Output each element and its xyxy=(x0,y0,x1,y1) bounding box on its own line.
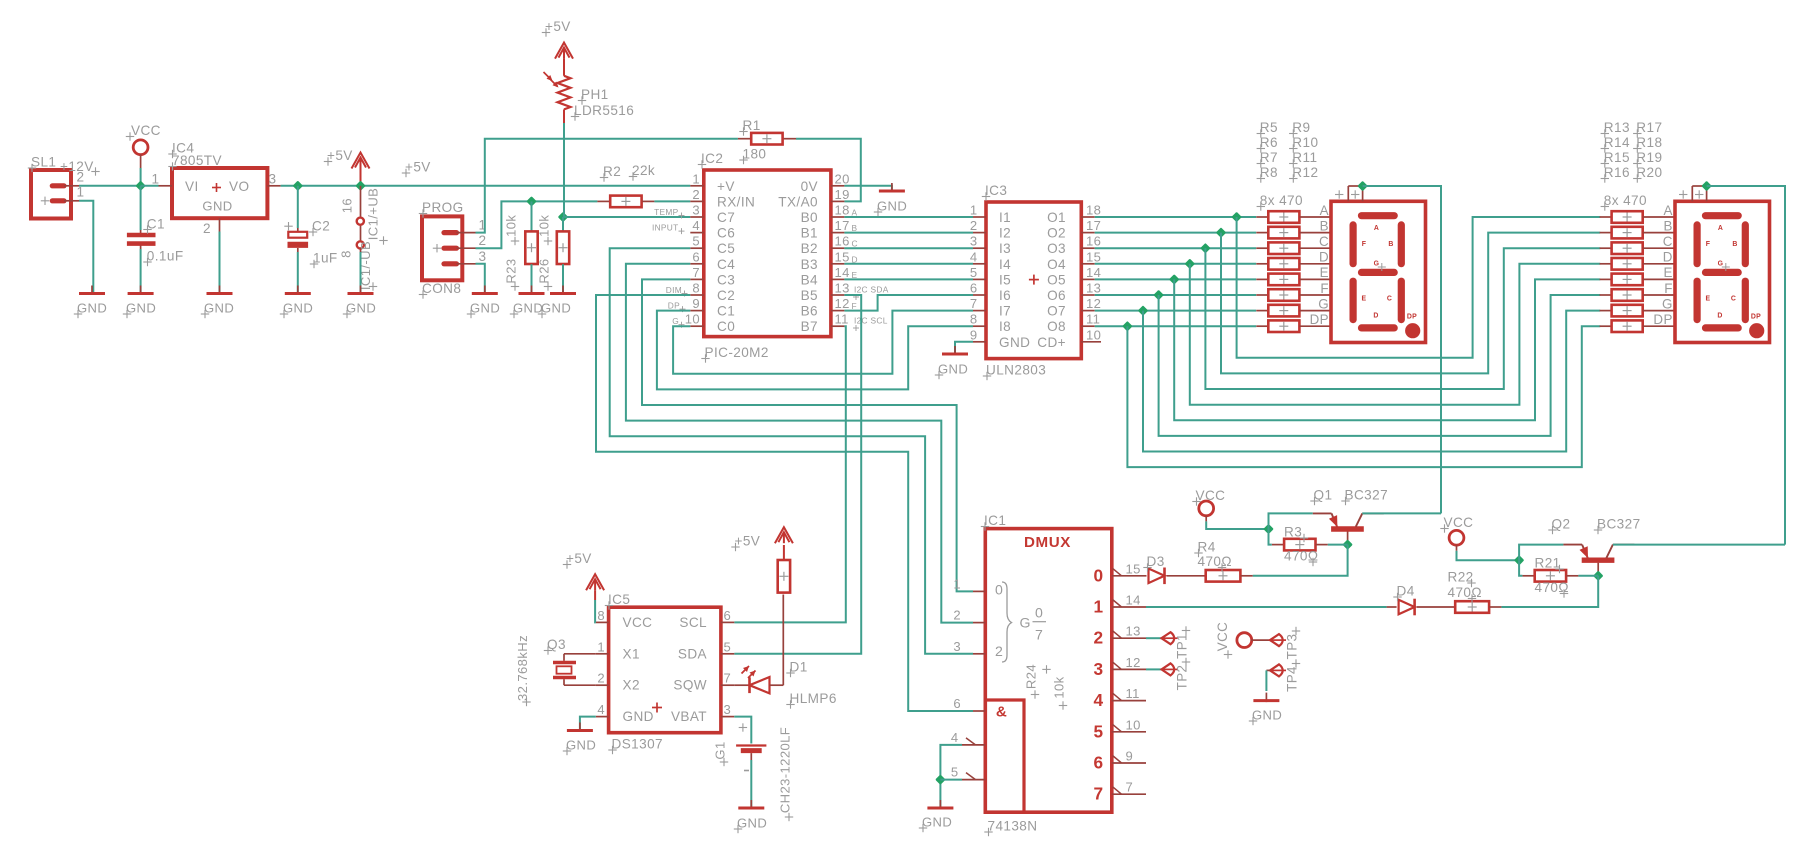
svg-text:5: 5 xyxy=(970,265,978,280)
svg-text:GND: GND xyxy=(623,709,654,724)
svg-text:TX/A0: TX/A0 xyxy=(778,194,818,209)
svg-text:+5V: +5V xyxy=(327,148,353,163)
svg-text:0: 0 xyxy=(1035,605,1043,621)
svg-text:B: B xyxy=(1732,241,1737,248)
svg-text:PROG: PROG xyxy=(422,200,464,215)
svg-text:R20: R20 xyxy=(1636,165,1662,180)
svg-text:2: 2 xyxy=(1094,628,1104,648)
svg-text:GND: GND xyxy=(126,301,156,316)
svg-text:GND: GND xyxy=(999,335,1030,350)
svg-text:DP: DP xyxy=(1751,314,1761,321)
svg-text:DP: DP xyxy=(668,301,680,311)
svg-text:B1: B1 xyxy=(801,226,818,241)
svg-text:5: 5 xyxy=(951,765,959,780)
svg-text:TP2: TP2 xyxy=(1175,665,1190,691)
svg-text:5: 5 xyxy=(724,639,732,654)
svg-text:6: 6 xyxy=(953,696,961,711)
svg-text:DP: DP xyxy=(1653,312,1672,327)
svg-text:B: B xyxy=(1320,218,1329,233)
svg-text:E: E xyxy=(1320,265,1329,280)
svg-text:Q2: Q2 xyxy=(1552,517,1571,532)
svg-text:9: 9 xyxy=(970,327,978,342)
svg-text:O3: O3 xyxy=(1047,241,1066,256)
svg-text:GND: GND xyxy=(204,301,234,316)
svg-text:SL1: SL1 xyxy=(31,155,56,170)
svg-text:7: 7 xyxy=(692,265,700,280)
svg-text:R9: R9 xyxy=(1292,120,1310,135)
svg-text:8: 8 xyxy=(970,312,978,327)
svg-text:R7: R7 xyxy=(1260,150,1278,165)
svg-text:R8: R8 xyxy=(1260,165,1278,180)
svg-text:5: 5 xyxy=(1094,721,1104,741)
svg-text:1: 1 xyxy=(1094,597,1104,617)
svg-text:12: 12 xyxy=(835,296,850,311)
svg-text:+5V: +5V xyxy=(735,534,761,549)
svg-text:C6: C6 xyxy=(717,226,735,241)
svg-text:DS1307: DS1307 xyxy=(612,737,663,752)
svg-text:19: 19 xyxy=(835,187,850,202)
svg-text:+5V: +5V xyxy=(405,160,431,175)
svg-text:PIC-20M2: PIC-20M2 xyxy=(705,345,769,360)
svg-text:D1: D1 xyxy=(790,660,808,675)
svg-text:1: 1 xyxy=(597,639,605,654)
svg-text:3: 3 xyxy=(692,203,700,218)
svg-text:PH1: PH1 xyxy=(581,87,609,102)
svg-text:IC3: IC3 xyxy=(985,183,1007,198)
svg-text:TEMP: TEMP xyxy=(654,207,679,217)
svg-text:2: 2 xyxy=(953,608,961,623)
svg-text:E: E xyxy=(1663,265,1672,280)
svg-text:3: 3 xyxy=(479,249,487,264)
svg-text:32.768kHz: 32.768kHz xyxy=(515,635,530,701)
svg-text:C: C xyxy=(1387,296,1392,303)
svg-text:CH23-1220LF: CH23-1220LF xyxy=(777,727,792,813)
svg-text:C3: C3 xyxy=(717,272,735,287)
svg-text:BC327: BC327 xyxy=(1345,488,1389,503)
svg-text:3: 3 xyxy=(269,172,277,187)
svg-text:R2: R2 xyxy=(603,164,621,179)
svg-text:BC327: BC327 xyxy=(1597,517,1641,532)
svg-text:GND: GND xyxy=(202,199,232,214)
svg-text:18: 18 xyxy=(1086,203,1101,218)
svg-text:B0: B0 xyxy=(801,210,818,225)
svg-text:7: 7 xyxy=(1126,780,1134,795)
svg-text:D: D xyxy=(1373,313,1378,320)
svg-text:C2: C2 xyxy=(312,219,330,234)
svg-text:R12: R12 xyxy=(1292,165,1318,180)
svg-text:R24: R24 xyxy=(1024,664,1039,689)
svg-text:10k: 10k xyxy=(537,215,552,237)
svg-text:O8: O8 xyxy=(1047,319,1066,334)
svg-text:3: 3 xyxy=(953,639,961,654)
svg-text:R23: R23 xyxy=(504,258,519,283)
svg-text:VCC: VCC xyxy=(1444,515,1474,530)
svg-text:16: 16 xyxy=(1086,234,1101,249)
svg-text:&: & xyxy=(996,704,1007,721)
svg-text:I2C SCL: I2C SCL xyxy=(854,316,888,326)
svg-text:4: 4 xyxy=(597,702,605,717)
svg-text:G: G xyxy=(1020,615,1031,631)
svg-text:74138N: 74138N xyxy=(988,819,1038,834)
svg-text:IC1: IC1 xyxy=(984,513,1006,528)
svg-text:I4: I4 xyxy=(999,257,1011,272)
svg-text:RX/IN: RX/IN xyxy=(717,194,755,209)
svg-text:10: 10 xyxy=(1126,717,1141,732)
svg-text:A: A xyxy=(1663,203,1672,218)
svg-text:GND: GND xyxy=(470,301,500,316)
svg-text:GND: GND xyxy=(877,199,907,214)
svg-text:B3: B3 xyxy=(801,257,818,272)
svg-text:R15: R15 xyxy=(1604,150,1630,165)
svg-text:R14: R14 xyxy=(1604,135,1630,150)
svg-text:2: 2 xyxy=(597,671,605,686)
svg-text:IC2: IC2 xyxy=(701,151,723,166)
svg-text:2: 2 xyxy=(77,170,85,185)
svg-text:INPUT: INPUT xyxy=(652,223,679,233)
svg-text:D3: D3 xyxy=(1147,554,1165,569)
svg-text:R26: R26 xyxy=(537,258,552,283)
svg-text:F: F xyxy=(1320,281,1329,296)
svg-text:7: 7 xyxy=(1094,784,1104,804)
svg-text:G: G xyxy=(1318,296,1329,311)
svg-text:C: C xyxy=(1319,234,1329,249)
svg-text:7: 7 xyxy=(724,671,732,686)
svg-text:R13: R13 xyxy=(1604,120,1630,135)
svg-text:DP: DP xyxy=(1310,312,1329,327)
svg-text:2: 2 xyxy=(203,221,211,236)
svg-text:VI: VI xyxy=(185,179,199,194)
svg-text:13: 13 xyxy=(1086,281,1101,296)
svg-text:A: A xyxy=(1320,203,1329,218)
svg-text:R21: R21 xyxy=(1535,556,1561,571)
svg-text:O2: O2 xyxy=(1047,226,1066,241)
svg-text:GND: GND xyxy=(566,738,596,753)
svg-text:18: 18 xyxy=(835,203,850,218)
svg-text:4: 4 xyxy=(692,218,700,233)
svg-text:O7: O7 xyxy=(1047,304,1066,319)
svg-text:6: 6 xyxy=(1094,753,1104,773)
svg-text:1: 1 xyxy=(692,171,700,186)
svg-text:B7: B7 xyxy=(801,319,818,334)
svg-text:+5V: +5V xyxy=(545,19,571,34)
svg-text:CD+: CD+ xyxy=(1037,335,1066,350)
svg-text:2: 2 xyxy=(479,233,487,248)
svg-text:A: A xyxy=(1374,225,1379,232)
svg-text:4: 4 xyxy=(1094,690,1104,710)
svg-text:8x 470: 8x 470 xyxy=(1604,193,1647,208)
svg-text:O4: O4 xyxy=(1047,257,1066,272)
svg-text:12: 12 xyxy=(1086,296,1101,311)
svg-text:17: 17 xyxy=(1086,218,1101,233)
svg-text:R17: R17 xyxy=(1636,120,1662,135)
svg-text:I1: I1 xyxy=(999,210,1011,225)
svg-text:R6: R6 xyxy=(1260,135,1278,150)
svg-text:DIM: DIM xyxy=(666,285,682,295)
svg-text:11: 11 xyxy=(835,312,849,327)
svg-text:6: 6 xyxy=(970,281,978,296)
svg-text:C5: C5 xyxy=(717,241,735,256)
svg-text:22k: 22k xyxy=(632,163,655,178)
svg-text:9: 9 xyxy=(1126,749,1134,764)
svg-text:TP3: TP3 xyxy=(1285,634,1300,660)
svg-text:1: 1 xyxy=(953,576,961,591)
svg-text:R1: R1 xyxy=(743,118,761,133)
svg-text:I2: I2 xyxy=(999,226,1011,241)
svg-text:+V: +V xyxy=(717,179,735,194)
svg-text:X2: X2 xyxy=(623,678,640,693)
svg-text:I7: I7 xyxy=(999,304,1011,319)
svg-text:16: 16 xyxy=(340,198,355,213)
svg-text:IC5: IC5 xyxy=(608,592,630,607)
svg-text:R19: R19 xyxy=(1636,150,1662,165)
svg-text:O6: O6 xyxy=(1047,288,1066,303)
svg-text:8: 8 xyxy=(339,250,354,258)
svg-text:R11: R11 xyxy=(1292,150,1317,165)
svg-text:GND: GND xyxy=(541,301,571,316)
svg-text:R4: R4 xyxy=(1198,540,1216,555)
svg-text:8x 470: 8x 470 xyxy=(1260,193,1303,208)
svg-text:10: 10 xyxy=(685,312,700,327)
svg-text:VCC: VCC xyxy=(1196,488,1226,503)
svg-text:6: 6 xyxy=(724,608,732,623)
svg-text:3: 3 xyxy=(1094,659,1104,679)
svg-text:17: 17 xyxy=(835,218,850,233)
svg-text:13: 13 xyxy=(835,281,850,296)
svg-text:GND: GND xyxy=(77,301,107,316)
svg-text:B6: B6 xyxy=(801,304,818,319)
svg-text:C: C xyxy=(1731,296,1736,303)
svg-text:0V: 0V xyxy=(801,179,818,194)
svg-text:Q3: Q3 xyxy=(547,637,566,652)
svg-text:7: 7 xyxy=(970,296,978,311)
svg-text:C7: C7 xyxy=(717,210,735,225)
svg-text:B: B xyxy=(1388,241,1393,248)
svg-text:1: 1 xyxy=(152,172,160,187)
svg-text:B: B xyxy=(1663,218,1672,233)
svg-text:15: 15 xyxy=(1126,561,1141,576)
svg-text:DP: DP xyxy=(1407,314,1417,321)
svg-text:GND: GND xyxy=(283,301,313,316)
svg-text:SCL: SCL xyxy=(679,615,707,630)
svg-text:G1: G1 xyxy=(712,741,727,759)
svg-text:Q1: Q1 xyxy=(1314,488,1333,503)
svg-text:E: E xyxy=(1362,296,1367,303)
svg-text:R10: R10 xyxy=(1292,135,1318,150)
svg-text:GND: GND xyxy=(938,362,968,377)
svg-text:14: 14 xyxy=(835,265,850,280)
svg-text:B4: B4 xyxy=(801,272,818,287)
svg-text:TP1: TP1 xyxy=(1175,633,1190,659)
svg-text:3: 3 xyxy=(724,702,732,717)
svg-text:4: 4 xyxy=(951,730,959,745)
svg-text:6: 6 xyxy=(692,249,700,264)
svg-text:14: 14 xyxy=(1126,593,1141,608)
svg-text:D4: D4 xyxy=(1397,584,1415,599)
svg-text:+5V: +5V xyxy=(566,551,592,566)
svg-text:TP4: TP4 xyxy=(1285,666,1300,692)
svg-text:IC1/+UB: IC1/+UB xyxy=(365,188,380,240)
svg-text:VBAT: VBAT xyxy=(671,709,707,724)
svg-text:11: 11 xyxy=(1126,686,1140,701)
svg-text:GND: GND xyxy=(513,301,543,316)
svg-text:D: D xyxy=(1663,250,1673,265)
svg-text:G: G xyxy=(1662,296,1673,311)
svg-text:X1: X1 xyxy=(623,646,640,661)
svg-text:HLMP6: HLMP6 xyxy=(790,691,837,706)
svg-text:12: 12 xyxy=(1126,655,1141,670)
svg-text:0: 0 xyxy=(1094,565,1104,585)
svg-text:0.1uF: 0.1uF xyxy=(147,249,184,264)
svg-text:180: 180 xyxy=(743,147,767,162)
svg-text:GND: GND xyxy=(346,301,376,316)
svg-text:ULN2803: ULN2803 xyxy=(986,363,1046,378)
svg-text:F: F xyxy=(1362,241,1367,248)
svg-text:R5: R5 xyxy=(1260,120,1278,135)
svg-text:C2: C2 xyxy=(717,288,735,303)
svg-text:3: 3 xyxy=(970,234,978,249)
svg-text:1uF: 1uF xyxy=(313,251,338,266)
svg-text:I2C SDA: I2C SDA xyxy=(854,285,889,295)
svg-text:SQW: SQW xyxy=(673,678,707,693)
svg-text:G: G xyxy=(672,316,679,326)
svg-text:470Ω: 470Ω xyxy=(1198,554,1232,569)
svg-text:11: 11 xyxy=(1086,312,1100,327)
svg-text:8: 8 xyxy=(692,281,700,296)
svg-text:5: 5 xyxy=(692,234,700,249)
svg-text:I6: I6 xyxy=(999,288,1011,303)
svg-text:4: 4 xyxy=(970,249,978,264)
svg-text:O1: O1 xyxy=(1047,210,1066,225)
svg-text:C1: C1 xyxy=(717,304,735,319)
svg-text:9: 9 xyxy=(692,296,700,311)
svg-text:7: 7 xyxy=(1035,627,1043,643)
svg-text:E: E xyxy=(1706,296,1711,303)
svg-text:GND: GND xyxy=(1252,708,1282,723)
svg-text:SDA: SDA xyxy=(678,646,708,661)
svg-text:O5: O5 xyxy=(1047,272,1066,287)
svg-text:F: F xyxy=(1706,241,1711,248)
svg-text:F: F xyxy=(1664,281,1673,296)
svg-text:2: 2 xyxy=(995,643,1003,659)
svg-text:VO: VO xyxy=(229,179,249,194)
svg-text:CON8: CON8 xyxy=(422,281,461,296)
svg-text:2: 2 xyxy=(970,218,978,233)
svg-text:R22: R22 xyxy=(1448,570,1474,585)
svg-text:C4: C4 xyxy=(717,257,735,272)
svg-text:D: D xyxy=(1319,250,1329,265)
svg-text:C: C xyxy=(1663,234,1673,249)
svg-text:7805TV: 7805TV xyxy=(172,153,222,168)
svg-text:20: 20 xyxy=(835,171,850,186)
svg-text:470Ω: 470Ω xyxy=(1448,585,1482,600)
svg-text:VCC: VCC xyxy=(1215,622,1230,651)
svg-text:I8: I8 xyxy=(999,319,1011,334)
svg-text:15: 15 xyxy=(1086,249,1101,264)
svg-text:1: 1 xyxy=(970,203,978,218)
svg-text:13: 13 xyxy=(1126,624,1141,639)
svg-text:C0: C0 xyxy=(717,319,735,334)
svg-text:10k: 10k xyxy=(1052,676,1067,698)
svg-text:GND: GND xyxy=(922,815,952,830)
svg-text:B5: B5 xyxy=(801,288,818,303)
svg-text:LDR5516: LDR5516 xyxy=(574,103,634,118)
svg-text:GND: GND xyxy=(737,816,767,831)
svg-text:I5: I5 xyxy=(999,272,1011,287)
svg-text:R3: R3 xyxy=(1284,525,1302,540)
svg-text:14: 14 xyxy=(1086,265,1101,280)
svg-text:2: 2 xyxy=(692,187,700,202)
svg-text:DMUX: DMUX xyxy=(1024,534,1071,551)
svg-text:8: 8 xyxy=(597,608,605,623)
svg-text:D: D xyxy=(1717,313,1722,320)
svg-text:16: 16 xyxy=(835,234,850,249)
svg-text:VCC: VCC xyxy=(131,123,161,138)
svg-text:10k: 10k xyxy=(504,215,519,237)
svg-text:10: 10 xyxy=(1086,327,1101,342)
svg-text:R16: R16 xyxy=(1604,165,1630,180)
svg-text:0: 0 xyxy=(995,582,1003,598)
svg-text:I3: I3 xyxy=(999,241,1011,256)
svg-text:VCC: VCC xyxy=(623,615,653,630)
svg-text:B2: B2 xyxy=(801,241,818,256)
svg-text:R18: R18 xyxy=(1636,135,1662,150)
svg-text:A: A xyxy=(1718,225,1723,232)
svg-text:15: 15 xyxy=(835,249,850,264)
